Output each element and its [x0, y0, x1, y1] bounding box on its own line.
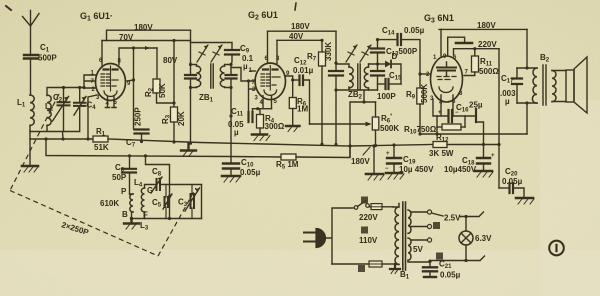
tube G3 internals	[437, 68, 456, 71]
wire line1 left drop to ground	[29, 132, 31, 166]
tube G2 pin9 wire	[286, 76, 293, 80]
svg-text:500K: 500K	[380, 124, 399, 133]
transformer B1 primary coil	[393, 204, 399, 265]
黑 black	[358, 265, 365, 272]
ground under B	[124, 219, 139, 224]
capacitor C6	[129, 156, 131, 168]
capacitor C21	[429, 262, 431, 267]
pilot lamp	[465, 217, 467, 232]
B1 secondary bottom coil	[408, 238, 411, 260]
svg-text:500Ω: 500Ω	[479, 67, 499, 76]
coil ZB2 secondary	[364, 67, 368, 88]
coil ZB2 primary	[349, 67, 353, 88]
capacitor C12	[293, 79, 298, 81]
capacitor C4 variable	[79, 88, 81, 103]
tube G2 pin1 stub	[250, 70, 255, 72]
wire ZB1 sec to G2 grid	[231, 68, 255, 82]
capacitor C8 trimmer	[157, 179, 161, 190]
svg-text:40V: 40V	[289, 32, 304, 41]
wire line2 to join line1	[296, 146, 350, 158]
resistor R10	[437, 126, 442, 128]
resistor R4	[259, 109, 261, 115]
wire 70V drop	[173, 41, 175, 108]
dashed gang lines	[10, 94, 196, 256]
fuse top	[369, 206, 393, 208]
ground	[22, 165, 38, 168]
红 red	[361, 197, 368, 204]
wire line1 continues	[108, 139, 350, 146]
svg-text:180V: 180V	[134, 23, 153, 32]
B1 taps	[411, 212, 427, 240]
svg-text:G2 6U1: G2 6U1	[248, 10, 278, 22]
svg-text:180V: 180V	[477, 21, 496, 30]
svg-text:6.3V: 6.3V	[475, 234, 492, 243]
tube G1 internals	[110, 66, 112, 91]
svg-text:50K: 50K	[158, 83, 167, 98]
ZB1 trimmer arrows	[197, 45, 222, 62]
capacitor C3 variable	[191, 185, 193, 219]
node line1-C4	[61, 137, 64, 140]
speaker	[552, 71, 566, 102]
resistor R11	[474, 49, 476, 56]
oscillator coil L3 (P-B winding)	[130, 194, 133, 212]
B1 secondary top coil	[408, 210, 411, 233]
tube G1 pin3 wire	[88, 95, 97, 139]
tube G1 pin 8 wire	[119, 48, 157, 65]
capacitor C16	[449, 110, 453, 122]
wire drop from line2 to osc tank	[146, 156, 170, 219]
resistor R5	[281, 154, 296, 160]
svg-text:1M: 1M	[297, 105, 308, 114]
svg-text:F: F	[143, 211, 148, 220]
B2 core	[543, 65, 546, 105]
svg-text:0.01µ: 0.01µ	[293, 66, 314, 75]
capacitor C9	[191, 43, 233, 50]
wire 40V line	[277, 39, 322, 41]
capacitor C5	[165, 185, 167, 219]
osc tank top rail	[160, 184, 202, 186]
resistor R3	[171, 107, 178, 122]
wire 180V top-left bus	[107, 30, 191, 40]
power plug	[316, 229, 326, 248]
tube G2 pin2 stub	[249, 88, 256, 90]
wire line2 branch	[46, 139, 281, 157]
tube G3 grid cap wire	[448, 37, 465, 55]
wire pin9 to C7	[127, 80, 134, 81]
svg-text:500P: 500P	[38, 54, 57, 63]
speck above G2	[295, 3, 296, 10]
tube G2 pin6 wire to 180V	[267, 31, 269, 63]
wire line1 right section	[350, 145, 433, 147]
resistor R1	[93, 136, 108, 142]
黄 yellow	[436, 253, 443, 260]
svg-text:50P: 50P	[112, 173, 127, 182]
wire bottoms of L2 C2 C4	[30, 105, 80, 131]
ZB1 core	[211, 64, 213, 88]
wire 180V bus mid	[268, 30, 337, 32]
svg-text:220V: 220V	[478, 40, 497, 49]
wire B1 5V bottom	[408, 260, 430, 262]
capacitor ZB2 primary cap	[329, 71, 343, 76]
tube G2 internals	[269, 66, 271, 91]
svg-text:100P: 100P	[377, 92, 396, 101]
dashed line gang bottom	[10, 191, 158, 257]
capacitor C14	[378, 39, 397, 41]
wire plug bottom to fuse	[332, 263, 369, 265]
potentiometer R6'	[375, 102, 377, 117]
capacitor C15	[378, 83, 385, 85]
coil L1	[30, 95, 34, 125]
svg-text:10µ450V: 10µ450V	[444, 165, 477, 174]
svg-text:−: −	[455, 110, 459, 116]
tube G3 envelope	[431, 56, 463, 102]
svg-text:180V: 180V	[291, 22, 310, 31]
coil B2 secondary	[552, 71, 556, 102]
tube G3 pin1 wire	[440, 29, 442, 56]
wire L1 bottom to line1	[29, 125, 31, 131]
wire pot top	[350, 90, 376, 157]
svg-text:−: −	[385, 166, 389, 172]
resistor R7	[321, 40, 323, 52]
svg-text:25µ: 25µ	[469, 101, 483, 110]
capacitor C10	[230, 157, 232, 164]
svg-text:250P: 250P	[134, 107, 143, 126]
tube G1 grid node	[82, 86, 85, 89]
svg-text:70V: 70V	[119, 33, 134, 42]
fuse bottom	[369, 261, 382, 267]
svg-text:0.05µ: 0.05µ	[440, 271, 461, 280]
svg-text:D: D	[392, 52, 398, 61]
wire 180V right bus	[439, 28, 527, 30]
svg-text:µ: µ	[505, 97, 510, 106]
svg-text:10µ 450V: 10µ 450V	[399, 165, 434, 174]
wire 220V right drop	[498, 49, 500, 188]
output transformer B2	[526, 29, 528, 68]
resistor R6	[292, 80, 294, 98]
osc tank bottom rail	[132, 218, 202, 220]
ZB1 secondary rail with cap	[230, 64, 232, 157]
capacitor C1	[24, 55, 38, 59]
wire 180V drop to ZB1	[190, 30, 192, 63]
svg-text:µ: µ	[243, 62, 248, 71]
棕 brown	[433, 222, 440, 229]
svg-text:G3 6N1: G3 6N1	[424, 13, 454, 25]
svg-text:P: P	[121, 187, 127, 196]
tube G2 cathode node	[253, 108, 272, 110]
switch	[354, 206, 358, 210]
oscillator coil L4 (G-F winding)	[141, 188, 144, 212]
svg-text:2.5V: 2.5V	[444, 214, 461, 223]
wire R2 to R3	[157, 93, 175, 103]
tube G1 grid stubs	[84, 75, 96, 88]
coil L2	[47, 95, 51, 125]
svg-text:180V: 180V	[351, 157, 370, 166]
svg-text:R5 1M: R5 1M	[276, 160, 299, 171]
wire 70V line	[102, 40, 191, 42]
svg-text:80V: 80V	[163, 56, 178, 65]
wire R3 to line1	[173, 122, 175, 142]
dashed line gang to C3	[158, 188, 196, 256]
capacitor C7	[135, 130, 149, 134]
wire drop to line1	[62, 132, 65, 140]
capacitor C13	[377, 40, 379, 48]
antenna	[23, 11, 40, 55]
tube G1 envelope	[96, 64, 126, 101]
capacitor C11	[249, 81, 253, 112]
svg-text:110V: 110V	[359, 236, 378, 245]
wire antenna to L1	[29, 59, 32, 96]
resistor R9	[419, 74, 421, 88]
wire grid node top	[47, 88, 84, 96]
svg-text:5V: 5V	[413, 245, 423, 254]
resistor R12	[433, 142, 447, 148]
svg-text:+: +	[438, 110, 442, 116]
svg-text:0.05µ: 0.05µ	[240, 168, 261, 177]
capacitor C19	[393, 145, 395, 157]
wire 220V line	[454, 49, 500, 55]
wire line1	[30, 138, 93, 140]
svg-text:330K: 330K	[324, 42, 333, 61]
capacitor C20	[499, 187, 508, 189]
wire 2.5V heater line	[432, 212, 484, 217]
svg-text:R10750Ω: R10750Ω	[404, 125, 437, 136]
svg-text:G1 6U1·: G1 6U1·	[80, 11, 113, 23]
svg-text:0.05µ: 0.05µ	[404, 26, 425, 35]
CJK char blobs	[358, 197, 443, 273]
svg-text:220V: 220V	[359, 213, 378, 222]
resistor R2	[153, 79, 160, 93]
wire bottom link line y134	[420, 133, 527, 135]
capacitor ZB2 secondary cap	[371, 71, 384, 76]
circled 1 mark	[549, 241, 564, 256]
svg-text:610K: 610K	[100, 199, 119, 208]
capacitor C17	[516, 68, 518, 103]
tube G1 pin 6 wire to 70V	[101, 41, 103, 66]
coil B2 primary	[532, 68, 537, 103]
tube G2 pin8 wire to 40V	[276, 40, 278, 63]
ZB2 core	[358, 64, 360, 90]
wire 180V bus right seg + drop	[335, 31, 337, 70]
svg-text:300Ω: 300Ω	[265, 122, 285, 131]
svg-text:G: G	[147, 186, 153, 195]
dashed line gang left	[10, 94, 59, 191]
svg-text:20K: 20K	[177, 111, 186, 126]
coil ZB1 secondary	[225, 65, 232, 67]
tube G3 pin8 bar	[475, 109, 477, 122]
tube G1 pin numbers	[91, 54, 469, 107]
svg-text:+: +	[491, 153, 495, 159]
wire volume wiper	[310, 123, 370, 125]
IF transformer ZB1 primary rail with cap	[190, 63, 192, 143]
speck top-left	[6, 6, 11, 10]
svg-text:500K: 500K	[420, 84, 429, 103]
wire 80V drop to R2	[156, 48, 158, 79]
svg-text:B: B	[122, 210, 128, 219]
B1 frame ground	[390, 264, 400, 269]
wire 180V mid gnd	[373, 146, 375, 173]
svg-text:µ: µ	[234, 128, 239, 137]
tube G2 envelope	[255, 63, 285, 100]
tube G3 cathode block	[433, 95, 465, 116]
B1 core	[403, 202, 406, 270]
svg-text:+: +	[386, 151, 390, 157]
svg-text:51K: 51K	[94, 143, 109, 152]
tube G3 pin2/grid wire	[420, 73, 430, 75]
diode D	[378, 63, 386, 65]
svg-text:0.05µ: 0.05µ	[502, 177, 523, 186]
osc tank right rail	[201, 185, 203, 219]
capacitor C2 trimmer	[63, 88, 65, 102]
ZB2 trimmer arrows	[346, 45, 371, 62]
capacitor C18	[477, 158, 490, 164]
wire plug to primary	[325, 208, 354, 264]
绿 green	[361, 227, 368, 234]
IF transformer ZB2 rails	[336, 64, 378, 90]
svg-text:3K 5W: 3K 5W	[429, 149, 454, 158]
coil ZB1 primary	[191, 65, 197, 67]
wire heater return	[430, 256, 485, 261]
ground below line1 at ZB1	[181, 144, 196, 151]
